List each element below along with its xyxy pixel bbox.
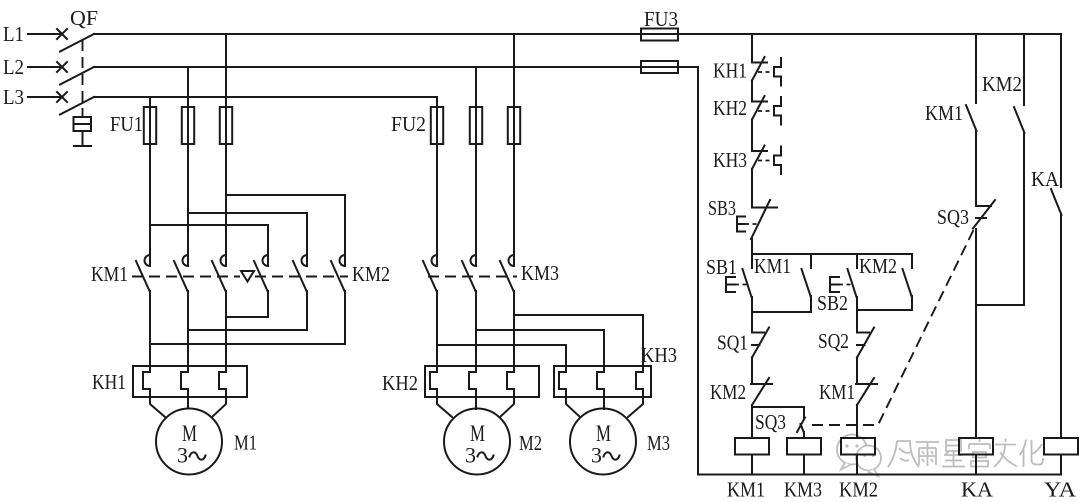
wire drop L3 to FU1a xyxy=(149,97,151,144)
wire drop L3 to FU2a xyxy=(436,97,438,144)
thermal relay KH1 box xyxy=(133,366,247,397)
KM2 aux NO contact xyxy=(911,254,913,268)
wire branch to KH3 b xyxy=(476,330,604,366)
svg-text:KM3: KM3 xyxy=(784,478,822,502)
wire tap C to KM2 pole6 xyxy=(226,195,345,266)
SQ3 linkage dashed xyxy=(812,229,974,425)
svg-text:KH1: KH1 xyxy=(713,59,747,83)
wire tap A to KM2 pole4 xyxy=(150,225,268,266)
svg-text:M2: M2 xyxy=(519,431,542,455)
wire KM1 pole3 out xyxy=(225,291,227,366)
thermal relay KH3 box xyxy=(554,366,651,397)
wires KH1 to motor M1 xyxy=(150,397,165,417)
svg-text:KM1: KM1 xyxy=(754,254,791,278)
contactor KM2 pole4 xyxy=(263,255,268,266)
svg-text:M3: M3 xyxy=(647,431,670,455)
wire control drop from L1 bus xyxy=(751,34,753,63)
wire KM2 pole5 out swap xyxy=(188,291,307,330)
motor M3 circle xyxy=(570,409,636,475)
KH3 heater B xyxy=(597,366,604,397)
svg-text:L2: L2 xyxy=(3,55,24,79)
svg-text:SQ3: SQ3 xyxy=(937,205,969,229)
contactor KM3 pole3 xyxy=(509,255,514,266)
svg-text:YA: YA xyxy=(1044,478,1077,502)
svg-text:KH3: KH3 xyxy=(641,343,677,367)
SQ1 NC limit switch xyxy=(752,332,764,334)
svg-text:L3: L3 xyxy=(3,85,24,109)
wire bus L3 xyxy=(94,96,437,98)
KH2 heater B xyxy=(469,366,476,397)
SB2 NO pushbutton xyxy=(856,254,858,268)
KM2 NO contact right xyxy=(1014,107,1025,133)
right branch drop 2 xyxy=(1023,34,1025,105)
wire xyxy=(751,120,753,152)
svg-text:FU1: FU1 xyxy=(110,112,143,136)
right branch drop 1 xyxy=(975,34,977,103)
wire FU2c down to KM3 xyxy=(513,144,515,266)
svg-text:3: 3 xyxy=(177,443,188,468)
KM1 NC contact xyxy=(856,383,877,385)
wire L1 lead-in xyxy=(28,33,62,35)
svg-text:KM1: KM1 xyxy=(819,380,855,404)
contactor KM2 pole6 xyxy=(340,255,345,266)
svg-text:KM1: KM1 xyxy=(91,262,128,286)
wire xyxy=(856,358,858,385)
left control rail xyxy=(697,67,699,475)
wire phase A down to KM1 xyxy=(149,144,151,266)
fuse FU1c xyxy=(220,107,232,144)
KH1 heater C xyxy=(219,366,226,397)
fuse FU3a xyxy=(641,29,678,41)
breaker QF trip box xyxy=(74,117,92,131)
svg-text:SQ1: SQ1 xyxy=(717,331,748,355)
junction to SQ3 branch xyxy=(752,407,804,418)
linkage triangle xyxy=(241,271,254,282)
bottom control rail xyxy=(698,474,1061,476)
fuse FU2b xyxy=(470,107,482,144)
wire bus L1 xyxy=(94,33,1061,35)
wire L2 lead-in xyxy=(28,66,62,68)
contactor KM1 pole2 xyxy=(183,255,188,266)
svg-text:SQ2: SQ2 xyxy=(818,329,849,353)
KH2 NC contact xyxy=(752,101,767,103)
wire KM3 pole2 out xyxy=(475,291,477,366)
wires KH2 to motor M2 xyxy=(437,397,452,417)
wire drop L1 to FU1c xyxy=(225,34,227,144)
fuse FU3b xyxy=(641,61,678,73)
wire xyxy=(856,310,858,333)
KH3 heater C xyxy=(636,366,643,397)
svg-text:KH1: KH1 xyxy=(92,370,126,394)
wire KM1 pole1 out xyxy=(149,291,151,366)
KM1 aux NO contact xyxy=(810,254,812,268)
svg-text:KM2: KM2 xyxy=(982,72,1022,96)
wire KM3 pole3 out xyxy=(513,291,515,366)
svg-text:KH2: KH2 xyxy=(382,371,418,395)
svg-text:KM3: KM3 xyxy=(521,261,559,285)
breaker QF pole 2 blade xyxy=(60,67,94,85)
KM1-KM2 linkage dashed right xyxy=(255,276,348,278)
svg-text:KH3: KH3 xyxy=(713,148,747,172)
svg-text:FU3: FU3 xyxy=(644,7,678,31)
svg-text:SB3: SB3 xyxy=(708,196,736,220)
KM3 linkage dashed xyxy=(428,276,517,278)
KH3 NC contact xyxy=(752,150,767,152)
svg-text:M1: M1 xyxy=(234,431,257,455)
coil KA xyxy=(959,438,993,455)
svg-text:KM1: KM1 xyxy=(727,478,765,502)
wire KM2 pole4 out swap xyxy=(226,291,268,317)
wire phase C down to KM1 xyxy=(225,144,227,266)
svg-text:SB2: SB2 xyxy=(817,291,848,315)
breaker QF pole 2 X mark xyxy=(57,62,67,72)
motor M2 circle xyxy=(444,409,510,475)
wire xyxy=(751,239,753,254)
KA NO contact xyxy=(1051,189,1062,215)
contactor KM3 pole1 xyxy=(432,255,438,266)
wire FU2b down to KM3 xyxy=(475,144,477,266)
wire xyxy=(856,405,858,438)
svg-text:L1: L1 xyxy=(3,22,24,46)
svg-text:KM2: KM2 xyxy=(859,254,897,278)
wire L3 lead-in xyxy=(28,96,62,98)
KH1 heater A xyxy=(143,366,150,397)
wire xyxy=(751,358,753,385)
wire FU2a down to KM3 xyxy=(436,144,438,266)
fuse FU1a xyxy=(144,107,156,144)
breaker QF pole 3 blade xyxy=(60,97,94,115)
wire xyxy=(975,229,977,438)
wire KM2 pole6 out swap xyxy=(150,291,345,344)
breaker QF linkage dashed xyxy=(82,40,84,117)
svg-text:KM1: KM1 xyxy=(925,101,963,125)
SB3 NC pushbutton xyxy=(752,207,777,209)
contactor KM2 pole5 xyxy=(302,255,308,266)
SQ3 NO limit switch xyxy=(797,418,805,433)
KM2 NC contact xyxy=(751,383,772,385)
svg-text:SB1: SB1 xyxy=(706,255,737,279)
SQ2 NC limit switch xyxy=(857,332,869,334)
wire xyxy=(751,81,753,102)
junction bar SB2/KM2 xyxy=(857,309,912,311)
coil KM1 xyxy=(735,438,769,455)
breaker QF stem and bar xyxy=(74,131,91,146)
wire xyxy=(751,312,753,333)
svg-text:KM2: KM2 xyxy=(839,478,878,502)
contactor KM3 pole2 xyxy=(471,255,477,266)
svg-text:FU2: FU2 xyxy=(391,112,426,136)
KH2 heater A xyxy=(430,366,437,397)
wire drop L2 to FU2b xyxy=(475,67,477,144)
svg-text:KM2: KM2 xyxy=(710,380,746,404)
contactor KM1 pole3 xyxy=(221,255,226,266)
watermark text xyxy=(888,439,1043,468)
svg-text:KA: KA xyxy=(1031,167,1059,191)
right rail drop xyxy=(1060,34,1062,187)
junction bar top xyxy=(752,253,912,255)
wire KM3 pole1 out xyxy=(436,291,438,366)
svg-text:QF: QF xyxy=(70,6,98,30)
junction bar SB1/KM1 xyxy=(752,311,811,313)
contactor KM1 pole1 xyxy=(145,255,151,266)
wires KH3 to motor M3 xyxy=(566,397,580,417)
svg-text:3: 3 xyxy=(465,443,476,468)
wire drop L1 to FU2c xyxy=(513,34,515,144)
KH2 heater C xyxy=(507,366,514,397)
SB1 NO pushbutton xyxy=(751,254,753,268)
KM1-KM2 linkage dashed xyxy=(132,276,240,278)
breaker QF pole 1 X mark xyxy=(57,29,67,39)
coil YA xyxy=(1044,438,1078,455)
coil KM3 xyxy=(787,438,821,455)
thermal relay KH2 box xyxy=(425,366,539,397)
SQ3 NC limit switch right xyxy=(976,205,991,207)
breaker QF pole 1 blade xyxy=(60,34,94,52)
wire branch to KH3 c xyxy=(514,315,643,366)
wire KM1 pole2 out xyxy=(187,291,189,366)
motor M1 circle xyxy=(156,409,222,475)
svg-text:SQ3: SQ3 xyxy=(755,410,786,434)
svg-text:3: 3 xyxy=(591,443,602,468)
KH3 heater A xyxy=(559,366,566,397)
wire phase B down to KM1 xyxy=(187,144,189,266)
breaker QF pole 3 X mark xyxy=(57,92,67,102)
wire tap B to KM2 pole5 xyxy=(188,213,307,266)
fuse FU2a xyxy=(431,107,443,144)
junction KM2 to KA line xyxy=(976,304,1024,306)
coil KM2 xyxy=(841,438,875,455)
wire bus L2 xyxy=(94,66,698,68)
wire xyxy=(751,405,753,438)
watermark icon xyxy=(837,435,881,477)
KH1 heater B xyxy=(181,366,188,397)
svg-text:KA: KA xyxy=(961,478,993,502)
fuse FU1b xyxy=(182,107,194,144)
KM1 NO contact right xyxy=(966,105,977,131)
fuse FU2c xyxy=(508,107,520,144)
svg-text:KH2: KH2 xyxy=(713,96,747,120)
wire xyxy=(751,169,753,208)
svg-text:KM2: KM2 xyxy=(352,262,390,286)
wire drop L2 to FU1b xyxy=(187,67,189,144)
KH1 NC contact xyxy=(752,62,767,64)
wire branch to KH3 a xyxy=(437,345,566,366)
